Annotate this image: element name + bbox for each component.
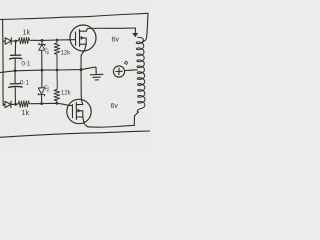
wire gate1 to mosfet bbox=[32, 39, 69, 42]
wire gate2 to mosfet bbox=[31, 103, 68, 105]
inductor L1 winding bbox=[136, 37, 145, 112]
node source-rail bbox=[80, 68, 83, 71]
node cap1-rail bbox=[14, 69, 17, 72]
resistor R4 12k (bottom) bbox=[54, 70, 60, 103]
meter + terminal bbox=[113, 66, 124, 77]
wire right edge drop bbox=[143, 13, 149, 41]
svg-text:12k: 12k bbox=[61, 91, 72, 97]
wire drain1 bbox=[86, 28, 135, 31]
wire center tap bbox=[125, 69, 138, 72]
svg-text:0·1: 0·1 bbox=[22, 61, 32, 68]
wire top rail bbox=[0, 13, 148, 19]
node r12k1-rail bbox=[56, 69, 59, 72]
svg-text:6v: 6v bbox=[112, 37, 120, 44]
zener Z1 12v (top) bbox=[41, 42, 43, 45]
diode D1 bbox=[5, 38, 11, 44]
ground bbox=[95, 67, 96, 74]
node r12k2 bottom bbox=[55, 102, 58, 105]
wire drain2 to rail bbox=[81, 70, 83, 105]
capacitor C2 0.1 (bottom) bbox=[14, 71, 16, 84]
node zener1-rail bbox=[41, 69, 44, 72]
mosfet Q2 (bottom) bbox=[67, 99, 91, 123]
resistor R2 12k (top) bbox=[54, 42, 60, 71]
svg-text:12k: 12k bbox=[61, 51, 72, 57]
diode D2 bbox=[5, 101, 11, 107]
svg-text:1k: 1k bbox=[23, 28, 31, 37]
arrowhead at coil top bbox=[133, 33, 138, 37]
mosfet Q1 (top) bbox=[70, 25, 96, 51]
node gate1-cap bbox=[14, 40, 17, 43]
svg-text:1k: 1k bbox=[22, 108, 30, 117]
svg-text:6v: 6v bbox=[111, 103, 119, 110]
wire top gate line bbox=[3, 40, 5, 42]
paper background bbox=[0, 0, 150, 150]
svg-text:0·1: 0·1 bbox=[20, 80, 30, 87]
capacitor C1 0.1 (top) bbox=[14, 41, 16, 55]
resistor R3 1k (bottom) bbox=[16, 101, 32, 108]
zener Z2 12v (bottom) bbox=[41, 70, 43, 88]
node r12k1 top bbox=[56, 39, 59, 42]
wire source1 bbox=[81, 44, 86, 69]
wire source2 bbox=[83, 117, 88, 127]
wire bottom border bbox=[0, 131, 150, 137]
node zener1 top bbox=[41, 39, 44, 42]
node gate2-cap bbox=[14, 103, 17, 106]
wire middle rail bbox=[0, 67, 95, 72]
wire bottom gate line bbox=[3, 104, 5, 106]
node zener2 bottom bbox=[40, 102, 43, 105]
wire left vertical bbox=[2, 20, 5, 106]
terminal dot above meter bbox=[125, 61, 128, 64]
resistor R1 1k (top) bbox=[16, 37, 32, 44]
